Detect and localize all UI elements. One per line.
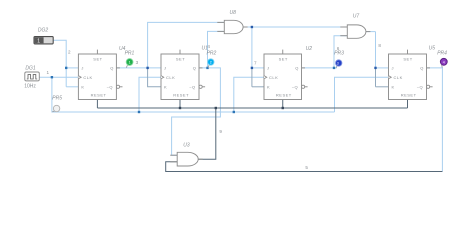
source DG2 digital constant body bbox=[34, 37, 53, 45]
source DG1 clock body bbox=[25, 72, 40, 81]
svg-text:PR2: PR2 bbox=[207, 51, 217, 57]
svg-text:K: K bbox=[81, 85, 84, 90]
flip-flop U1 SET pin stub bbox=[179, 50, 181, 54]
wire net 8: U7 output stub bbox=[366, 31, 376, 33]
source DG1 square-wave glyph bbox=[27, 75, 37, 79]
svg-text:K: K bbox=[392, 85, 395, 90]
probe PR2 tail bbox=[208, 59, 214, 68]
pin stub U8 input A bbox=[217, 21, 224, 23]
flip-flop U2 CLK edge triangle bbox=[264, 76, 267, 79]
wire net 4: U1 Q east then down to U3 input A bbox=[172, 68, 221, 155]
svg-text:PR5: PR5 bbox=[52, 96, 62, 102]
flip-flop U5 ~Q bubble bbox=[427, 85, 430, 88]
wire net 3: drop to U1 K bbox=[148, 68, 161, 87]
wire net 7: branch to U2 K bbox=[252, 86, 264, 88]
probe PR3 body bbox=[336, 60, 342, 66]
flip-flop U5 JK body bbox=[389, 50, 433, 100]
svg-text:J: J bbox=[267, 66, 270, 71]
wire net 1 clock: riser to U2 CLK bbox=[234, 77, 264, 112]
svg-text:RESET: RESET bbox=[173, 92, 189, 97]
wire net 6: U2 Q to PR3 bbox=[302, 67, 338, 69]
flip-flop U2 ~Q pin stub bbox=[305, 86, 308, 88]
wire net 5: bottom bus to U3 input B bbox=[166, 162, 443, 172]
wire net 9: U3 output up to reset bus bbox=[198, 108, 216, 159]
wire net 8: drop to U5 K bbox=[375, 68, 377, 87]
probe PR1 tail bbox=[126, 59, 133, 68]
svg-text:CLK: CLK bbox=[83, 75, 92, 80]
svg-text:2: 2 bbox=[210, 61, 212, 65]
wire net 1 clock: DG1 output to U4 CLK bbox=[39, 76, 78, 78]
junction net 7 at U2 J bbox=[251, 67, 253, 69]
svg-text:U8: U8 bbox=[230, 10, 237, 16]
pin stub U3 output bbox=[198, 158, 203, 160]
pin stub U3 input A bbox=[170, 154, 177, 156]
svg-text:~Q: ~Q bbox=[189, 85, 195, 90]
wire net 1 clock: riser to U5 CLK bbox=[335, 77, 389, 112]
flip-flop U1 ~Q pin stub bbox=[202, 86, 205, 88]
svg-text:SET: SET bbox=[403, 56, 412, 61]
flip-flop U5 SET pin stub bbox=[407, 50, 409, 54]
wire net 9: U4 RESET drop bbox=[96, 100, 98, 109]
svg-text:10Hz: 10Hz bbox=[24, 84, 36, 90]
flip-flop U4 CLK edge triangle bbox=[78, 76, 81, 79]
and-gate U8 bbox=[224, 20, 243, 33]
wire net 9: U2 RESET drop bbox=[282, 100, 284, 109]
wire net 8: branch to U5 K bbox=[376, 86, 389, 88]
pin stub U7 input A bbox=[340, 26, 347, 28]
junction net 4 at U8 input riser bbox=[206, 67, 208, 69]
and-gate U7 bbox=[347, 25, 366, 38]
svg-text:~Q: ~Q bbox=[107, 85, 113, 90]
svg-text:4: 4 bbox=[443, 60, 445, 64]
probe PR2 body bbox=[208, 59, 214, 65]
flip-flop U1 JK body bbox=[161, 50, 205, 100]
probe PR1 body bbox=[126, 59, 133, 66]
junction clock bus at U2 riser bbox=[233, 111, 235, 113]
svg-text:J: J bbox=[392, 66, 395, 71]
junction reset bus at U3 output bbox=[215, 107, 217, 109]
wire net 3: U4 Q to U1 J bbox=[116, 67, 161, 69]
svg-text:PR4: PR4 bbox=[437, 50, 447, 56]
svg-text:K: K bbox=[164, 85, 167, 90]
svg-text:RESET: RESET bbox=[276, 92, 292, 97]
probe PR5 body bbox=[53, 105, 59, 111]
flip-flop U4 JK body bbox=[78, 50, 122, 100]
wire net 8: drop from U7 output to U5 J bbox=[375, 32, 377, 68]
svg-text:~Q: ~Q bbox=[417, 85, 423, 90]
svg-text:RESET: RESET bbox=[91, 92, 107, 97]
probe PR4 body bbox=[440, 58, 447, 65]
svg-text:U7: U7 bbox=[353, 13, 360, 19]
probe PR4 tail bbox=[440, 58, 447, 67]
flip-flop U2 ~Q bubble bbox=[302, 85, 305, 88]
svg-text:Q: Q bbox=[420, 66, 424, 71]
junction net 7 at U8 output bbox=[251, 26, 253, 28]
svg-text:SET: SET bbox=[93, 56, 102, 61]
svg-text:J: J bbox=[81, 66, 84, 71]
svg-text:7: 7 bbox=[254, 61, 257, 66]
probe PR5 tail bbox=[52, 105, 60, 112]
svg-text:1: 1 bbox=[47, 70, 50, 75]
wire net 2: branch to U4 K bbox=[66, 86, 78, 88]
wire net 1 clock: drop from junction and bottom clock bus bbox=[52, 77, 335, 112]
flip-flop U2 SET pin stub bbox=[282, 50, 284, 54]
junction reset bus at U1 drop bbox=[179, 107, 181, 109]
svg-text:PR1: PR1 bbox=[125, 51, 135, 57]
wire net 6: riser up to U7 input B bbox=[334, 36, 347, 68]
wire net 4: riser up to U8 input B bbox=[208, 31, 225, 68]
wire net 9: U5 RESET drop bbox=[407, 100, 409, 109]
pin stub U4 Q bbox=[116, 67, 120, 69]
junction net 2 at U4 J bbox=[65, 67, 67, 69]
flip-flop U1 CLK edge triangle bbox=[161, 76, 164, 79]
wire net 7: drop from U8 output to U2 J bbox=[251, 27, 253, 68]
svg-text:3: 3 bbox=[136, 60, 139, 65]
svg-text:J: J bbox=[164, 66, 167, 71]
svg-text:DG1: DG1 bbox=[25, 65, 36, 71]
junction net 3 at U1 J riser bbox=[146, 67, 148, 69]
svg-text:CLK: CLK bbox=[166, 75, 175, 80]
pin stub U8 output bbox=[243, 26, 248, 28]
svg-text:U3: U3 bbox=[183, 143, 190, 149]
wire net 7: drop to U2 K bbox=[251, 68, 253, 87]
svg-text:K: K bbox=[267, 85, 270, 90]
pin stub U3 input B bbox=[170, 161, 177, 163]
wire net 7: U8 output to U7 input A bbox=[243, 26, 347, 28]
flip-flop U4 SET pin stub bbox=[96, 50, 98, 54]
svg-text:Q: Q bbox=[110, 66, 114, 71]
flip-flop U5 ~Q pin stub bbox=[430, 86, 433, 88]
junction clock bus at U1 riser bbox=[138, 111, 140, 113]
svg-text:SET: SET bbox=[279, 56, 288, 61]
pin stub U2 Q bbox=[302, 67, 306, 69]
svg-text:8: 8 bbox=[378, 43, 381, 48]
svg-text:U5: U5 bbox=[429, 45, 436, 51]
junction clock net at DG1 output bbox=[51, 76, 53, 78]
svg-text:Q: Q bbox=[193, 66, 197, 71]
svg-text:2: 2 bbox=[68, 50, 71, 55]
wire net 2: branch to U4 J bbox=[66, 67, 78, 69]
svg-text:~Q: ~Q bbox=[292, 85, 298, 90]
flip-flop U1 ~Q bubble bbox=[199, 85, 202, 88]
svg-text:CLK: CLK bbox=[394, 75, 403, 80]
svg-text:SET: SET bbox=[176, 56, 185, 61]
flip-flop U2 JK body bbox=[264, 50, 308, 100]
wire net 9: U1 RESET drop bbox=[179, 100, 181, 109]
junction reset bus at U2 drop bbox=[282, 107, 284, 109]
wire net 1 clock: riser to U1 CLK bbox=[139, 77, 161, 112]
wire net 3: riser up to U8 input A bbox=[148, 22, 225, 68]
and-gate U3 bbox=[177, 152, 198, 166]
wire net 5: U5 Q east and down right side bbox=[427, 68, 443, 172]
svg-text:1: 1 bbox=[37, 38, 40, 44]
svg-text:CLK: CLK bbox=[269, 75, 278, 80]
source DG2 value cell bbox=[35, 37, 44, 43]
wire net 8: branch to U5 J bbox=[376, 67, 389, 69]
svg-text:9: 9 bbox=[219, 129, 222, 134]
svg-text:Q: Q bbox=[295, 66, 299, 71]
pin stub U5 Q bbox=[427, 67, 431, 69]
wire net 9: reset bus bbox=[97, 107, 407, 109]
svg-text:PR3: PR3 bbox=[334, 51, 344, 57]
svg-text:1: 1 bbox=[129, 61, 131, 65]
junction net 8 at U5 J bbox=[374, 67, 376, 69]
svg-text:3: 3 bbox=[337, 61, 339, 65]
svg-text:U2: U2 bbox=[306, 46, 313, 52]
wire net 7: branch to U2 J bbox=[252, 67, 264, 69]
probe PR3 tail bbox=[336, 60, 342, 68]
junction net 6 at U7 input riser bbox=[333, 67, 335, 69]
pin stub U8 input B bbox=[217, 30, 224, 32]
svg-text:RESET: RESET bbox=[401, 92, 417, 97]
pin stub U1 Q bbox=[199, 67, 203, 69]
svg-text:5: 5 bbox=[305, 165, 308, 170]
flip-flop U5 CLK edge triangle bbox=[389, 76, 392, 79]
flip-flop U4 ~Q pin stub bbox=[120, 86, 123, 88]
pin stub U7 output bbox=[366, 31, 371, 33]
wire net 2: DG2 constant to J/K riser of U4 bbox=[53, 40, 66, 87]
svg-text:DG2: DG2 bbox=[38, 27, 49, 33]
flip-flop U4 ~Q bubble bbox=[116, 85, 119, 88]
pin stub U7 input B bbox=[340, 35, 347, 37]
